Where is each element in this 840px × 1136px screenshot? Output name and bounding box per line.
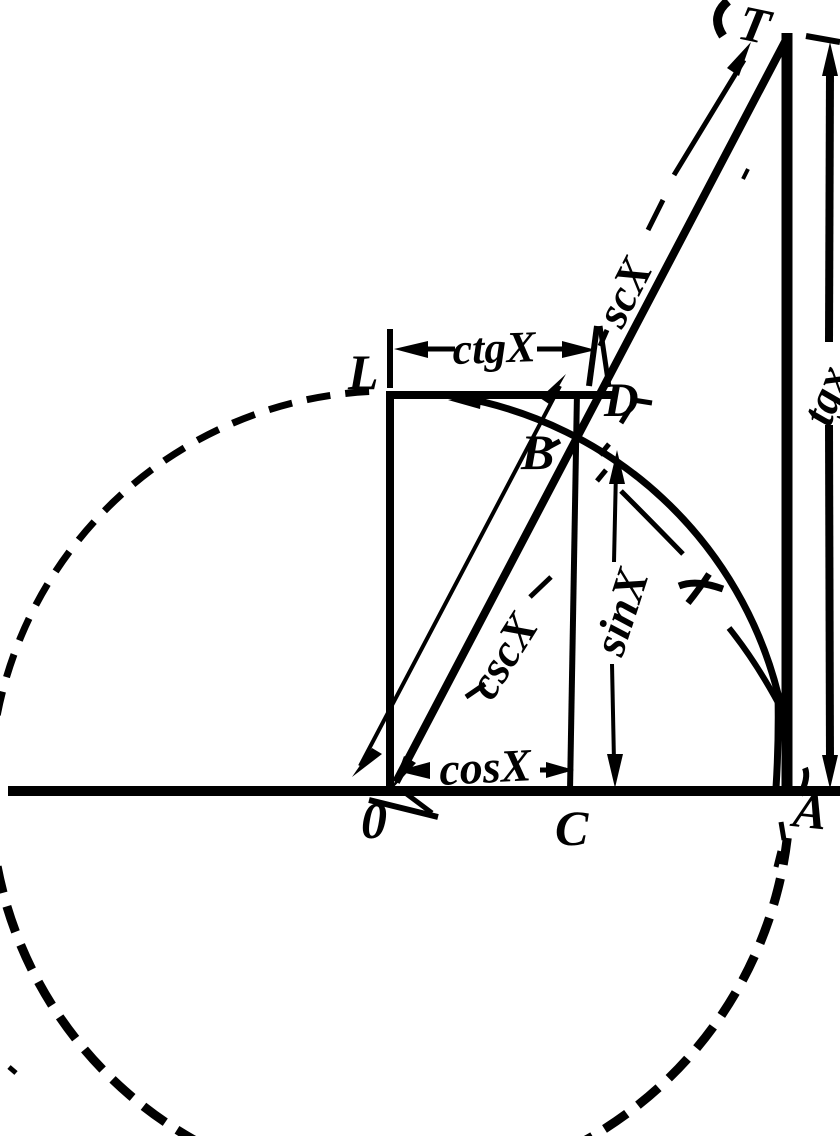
ctg line right part [537, 347, 572, 352]
csc top arrowhead [540, 374, 566, 404]
stray mark below A 1 [781, 822, 784, 840]
stray dot left bottom [9, 1067, 16, 1073]
dashed leader from D to sin arrow: dash 1 [633, 400, 652, 403]
echo arc stroke inner near A [729, 628, 784, 714]
tg line upper part [829, 70, 830, 342]
ctg right tick (lambda shape at D) [589, 326, 597, 386]
svg-text:L: L [347, 344, 379, 400]
dash under B [547, 441, 560, 448]
csc label leader dash above [530, 577, 551, 597]
echo arc stroke mid [621, 491, 683, 554]
tg measurement: top tick [806, 36, 840, 42]
sc leader dash [648, 200, 663, 230]
cos line right part [540, 768, 566, 773]
csc bottom arrowhead [352, 748, 382, 777]
sc measurement leader: top arrowhead near T [727, 42, 751, 76]
top tangent line L to D [387, 391, 612, 399]
tangent line at A (vertical, A to T) [782, 33, 793, 791]
sin measurement vertical line upper part [614, 470, 616, 562]
sin top arrowhead [609, 450, 625, 484]
ctg measurement: left tick at L [387, 329, 393, 388]
vertical segment D/B down to C [570, 392, 577, 791]
dash 2 [621, 407, 631, 423]
ctg right arrowhead [562, 341, 596, 358]
tg top arrowhead [822, 42, 838, 76]
cos measurement left arrowhead at O [397, 762, 430, 779]
label T flourish [718, 1, 728, 36]
dash 3 [600, 444, 609, 455]
dashed unit circle (center O, r=400) [0, 392, 369, 826]
cos right arrowhead at C line [546, 762, 574, 778]
tg line lower part [829, 425, 830, 762]
angle X label [679, 583, 723, 589]
sin bottom arrowhead [607, 754, 623, 788]
solid circle arc from near A up to arrow near L [460, 397, 779, 788]
angle X label cross stroke [688, 574, 709, 603]
ctg right tick second stroke [600, 326, 609, 387]
ctg line left part [420, 347, 455, 352]
dash 4 [597, 470, 606, 481]
stray mark below A 2 [776, 851, 780, 867]
svg-text:C: C [555, 800, 589, 856]
csc label leader dash below [466, 684, 485, 697]
sin line lower part [612, 664, 614, 762]
second small tick below axis at O [404, 792, 432, 813]
sc leader solid segment [674, 60, 744, 175]
main secant line O to T [396, 36, 788, 782]
stray dash upper right [743, 169, 748, 179]
svg-text:cosX: cosX [438, 739, 534, 795]
svg-text:D: D [603, 374, 639, 427]
dashed circle lower portion [0, 826, 789, 1136]
ctg left arrowhead [394, 341, 428, 358]
tick through O below axis (perpendicular) [369, 800, 438, 817]
arrowhead at O end of secant line [392, 756, 416, 789]
horizontal axis through O and A [8, 786, 840, 796]
svg-text:ctgX: ctgX [452, 322, 538, 374]
csc measurement line (parallel left of OT) [360, 386, 560, 766]
label A flourish [800, 768, 806, 795]
tg bottom arrowhead [822, 755, 838, 789]
svg-text:0: 0 [361, 793, 387, 850]
sc leader bottom dash [600, 330, 607, 346]
svg-text:B: B [520, 424, 554, 480]
arrowhead at end of solid arc (points left toward L) [448, 392, 482, 409]
radius OL (vertical line at x=390) [386, 391, 394, 794]
